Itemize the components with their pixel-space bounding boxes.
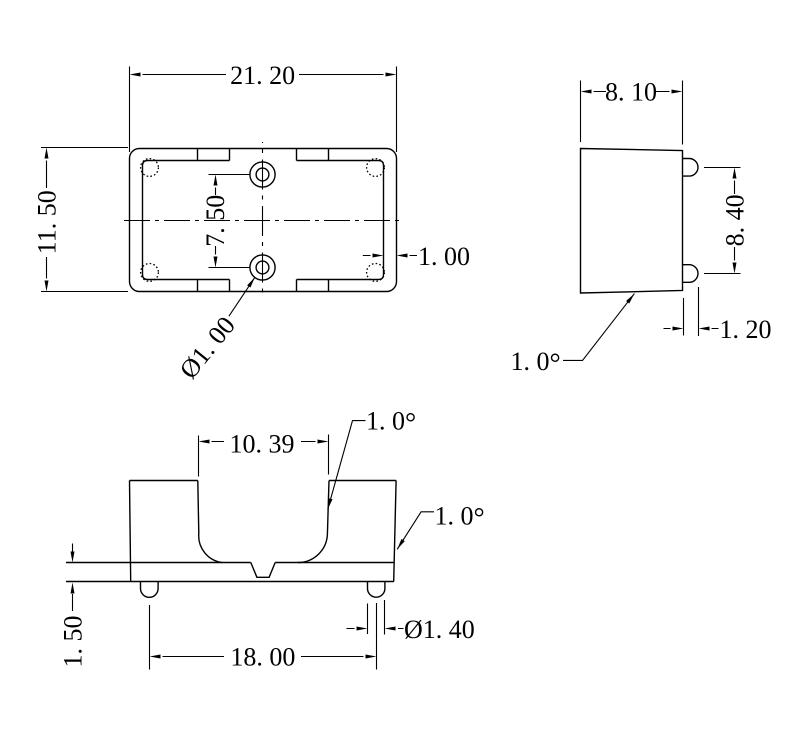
svg-text:11. 50: 11. 50 bbox=[33, 190, 62, 254]
dim dia 1.40 bbox=[347, 600, 404, 635]
svg-text:Ø1. 00: Ø1. 00 bbox=[174, 311, 241, 384]
svg-text:10. 39: 10. 39 bbox=[230, 429, 295, 458]
dim 1.50 bbox=[72, 544, 74, 612]
side pin top bbox=[683, 159, 699, 177]
U cutout bbox=[198, 481, 329, 563]
dim 8.40 top arrowhead bbox=[733, 168, 737, 179]
front pin left bbox=[141, 582, 159, 598]
arrowheads bbox=[45, 73, 737, 659]
dim 8.10 right arrowhead bbox=[672, 90, 683, 94]
dimensions bbox=[41, 67, 741, 670]
top view notch ticks bbox=[198, 149, 329, 292]
dim 8.10 bbox=[581, 81, 683, 145]
dim 10.39 right arrowhead bbox=[318, 440, 329, 444]
front view top edges bbox=[130, 480, 397, 482]
dim 8.40 bbox=[704, 168, 741, 274]
dim 1.20 bbox=[664, 287, 719, 336]
side pin bottom bbox=[683, 265, 698, 283]
top view inner wall top bbox=[143, 161, 384, 280]
dim 1.50 top arrowhead bbox=[71, 552, 75, 563]
leader 1.0deg front-top arrowhead bbox=[326, 498, 333, 510]
svg-text:1. 0°: 1. 0° bbox=[366, 407, 416, 440]
dim dia1.40 left arrowhead bbox=[357, 627, 368, 631]
hole bottom bbox=[250, 255, 275, 280]
dim 18.00 bbox=[150, 603, 377, 670]
leader dia1.00 arrowhead bbox=[247, 276, 256, 287]
leader 1.0 front top bbox=[328, 421, 366, 510]
leader 1.0 side bbox=[563, 294, 634, 361]
dim 18.00 left arrowhead bbox=[150, 655, 161, 659]
dim 1.50 bottom arrowhead bbox=[71, 583, 75, 594]
front pin right bbox=[368, 582, 385, 598]
svg-text:1. 0°: 1. 0° bbox=[511, 347, 561, 380]
leader 1.0deg side arrowhead bbox=[626, 292, 636, 303]
dim dia1.40 right arrowhead bbox=[385, 627, 396, 631]
top view outer body bbox=[130, 149, 397, 292]
hole top bbox=[250, 162, 275, 187]
dim 11.50 top arrowhead bbox=[45, 148, 49, 159]
svg-text:18. 00: 18. 00 bbox=[230, 643, 295, 672]
centerlines bbox=[124, 142, 400, 299]
dim 10.39 bbox=[199, 435, 329, 477]
svg-text:1. 00: 1. 00 bbox=[418, 242, 470, 271]
corner holes dotted bbox=[141, 159, 385, 282]
step line1 bbox=[66, 562, 394, 564]
svg-text:8. 10: 8. 10 bbox=[605, 77, 657, 106]
dim 21.20 left arrowhead bbox=[130, 73, 141, 77]
leader 1.0deg front-right arrowhead bbox=[396, 539, 405, 550]
leader dia 1.00 bbox=[229, 277, 255, 316]
dim 1.00 right arrowhead bbox=[397, 254, 408, 258]
dim 8.40 bottom arrowhead bbox=[733, 263, 737, 274]
dim 7.50 bbox=[209, 175, 250, 268]
front view sides bbox=[130, 481, 397, 582]
bottom line2 bbox=[66, 581, 394, 583]
dim 8.10 left arrowhead bbox=[581, 90, 592, 94]
svg-text:Ø1. 40: Ø1. 40 bbox=[404, 615, 475, 644]
side view outline bbox=[581, 149, 683, 294]
dim 1.00 wall bbox=[363, 255, 417, 257]
dim 11.50 bottom arrowhead bbox=[45, 281, 49, 292]
dim 7.50 top arrowhead bbox=[214, 175, 218, 186]
svg-text:21. 20: 21. 20 bbox=[230, 61, 295, 90]
dim 21.20 right arrowhead bbox=[386, 73, 397, 77]
leader 1.0 front right bbox=[397, 512, 434, 550]
dim 18.00 right arrowhead bbox=[366, 655, 377, 659]
gate notch bbox=[251, 563, 275, 578]
dim 1.20 left arrowhead bbox=[673, 327, 684, 331]
dim 7.50 bottom arrowhead bbox=[214, 257, 218, 268]
svg-text:1. 0°: 1. 0° bbox=[435, 502, 485, 535]
svg-text:7. 50: 7. 50 bbox=[201, 195, 230, 247]
dim 11.50 bbox=[41, 148, 128, 292]
dim 10.39 left arrowhead bbox=[199, 440, 210, 444]
dim 21.20 bbox=[130, 67, 397, 153]
svg-text:1. 20: 1. 20 bbox=[720, 315, 772, 344]
dim 1.20 right arrowhead bbox=[699, 327, 710, 331]
dim 1.00 left arrowhead bbox=[373, 254, 384, 258]
svg-text:8. 40: 8. 40 bbox=[720, 194, 749, 246]
svg-text:1. 50: 1. 50 bbox=[58, 616, 87, 668]
